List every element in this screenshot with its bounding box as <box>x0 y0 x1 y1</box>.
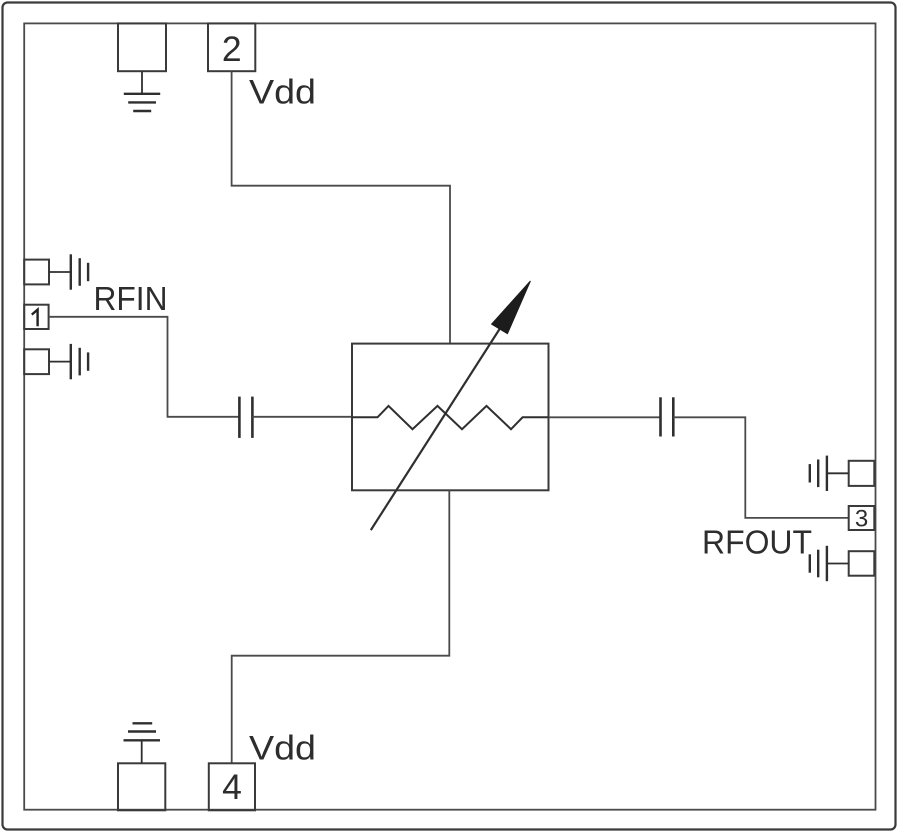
ground bottom-left <box>124 723 161 763</box>
arrowhead <box>492 281 531 334</box>
pad right lower <box>849 551 875 576</box>
resistor zigzag <box>352 406 549 429</box>
ground left upper <box>49 254 88 289</box>
wire attenuator to C2 <box>549 416 661 418</box>
pad bottom-left <box>118 763 165 810</box>
pin box 4 <box>209 763 255 810</box>
svg-text:RFOUT: RFOUT <box>702 525 812 562</box>
capacitor C1 <box>239 397 252 438</box>
wire C1 to attenuator <box>252 416 352 418</box>
svg-text:4: 4 <box>222 767 242 807</box>
pad right upper <box>849 461 875 486</box>
svg-text:2: 2 <box>222 29 242 69</box>
pad left lower <box>24 349 49 374</box>
wire pin2 to attenuator top <box>232 71 450 343</box>
pad left upper <box>24 260 49 285</box>
variable attenuator box <box>352 344 549 491</box>
svg-text:Vdd: Vdd <box>249 729 316 767</box>
svg-text:Vdd: Vdd <box>249 73 316 111</box>
pin number 1 <box>32 310 38 327</box>
svg-text:3: 3 <box>855 506 868 533</box>
ground left lower <box>49 344 88 379</box>
ground right upper <box>810 456 849 491</box>
capacitor C2 <box>661 397 674 436</box>
wire pin4 to attenuator bottom <box>232 490 450 763</box>
wire C2 to pin3 <box>673 417 848 518</box>
svg-text:RFIN: RFIN <box>94 281 168 318</box>
ground top-left <box>124 71 160 111</box>
pin box 3 <box>849 506 875 530</box>
arrow shaft <box>371 310 512 530</box>
wire pin1 to C1 <box>49 317 239 417</box>
pin box 2 <box>208 23 255 71</box>
pad top-left <box>118 23 166 71</box>
ground right lower <box>810 546 849 581</box>
pin box 1 <box>24 305 48 329</box>
